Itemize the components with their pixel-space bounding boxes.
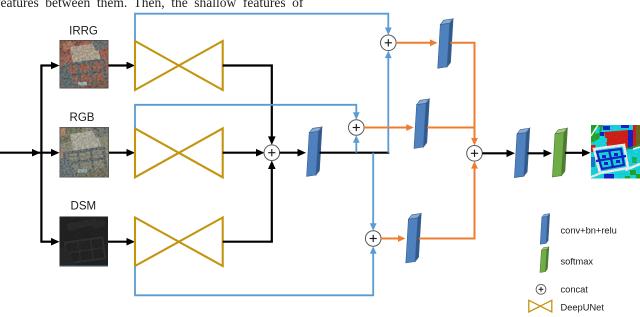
arrowhead into DeepUNet2 [127,149,136,157]
svg-text:softmax: softmax [561,257,594,267]
arrowhead into concat A top [268,136,276,145]
skip wire DSM (blue) to concat D [135,249,373,295]
input image DSM [60,217,109,267]
input image RGB [60,127,110,178]
wire: concat C to conv slab3 (orange) [364,127,410,129]
arrowhead into concat D bottom [370,246,377,254]
svg-text:RGB: RGB [70,112,95,124]
wire: slab2 output to right rail (orange) [451,43,475,143]
arrowhead into RGB image [51,149,60,157]
wire: bus branch up to concat B (blue) [387,54,389,153]
arrowhead into softmax slab [544,150,553,158]
concat node B [381,35,397,51]
wire: branch to IRRG [40,64,54,66]
wire: softmax to output image [565,152,587,154]
wire: slab3 output to right rail (orange) [427,127,475,129]
arrowhead into slab5 [507,150,516,158]
DeepUNet U1 (IRRG branch) [135,41,223,90]
svg-text:conv+bn+relu: conv+bn+relu [561,225,617,235]
legend conv+bn+relu slab [540,214,550,245]
wire: slab4 output up to concat E (orange) [419,164,475,239]
wire: vertical distribution [40,66,42,242]
concat node D [365,231,381,247]
arrowhead into slab4 [398,235,406,242]
arrowhead into slab3 [406,124,414,131]
input image IRRG [60,40,109,89]
arrowhead into DeepUNet3 [127,238,136,246]
DeepUNet U3 (DSM branch) [135,218,223,267]
arrowhead into concat B top [385,28,392,36]
conv+bn+relu slab1 [307,127,322,176]
concat node E [467,146,483,162]
arrowhead into IRRG image [51,62,60,70]
wire: concat A to conv slab1 [280,152,302,154]
wire: bus branch down to concat D (blue) [372,153,374,228]
arrowhead into concat A left [256,149,265,157]
svg-text:DeepUNet: DeepUNet [561,302,605,312]
concat node C [349,120,365,136]
svg-text:DSM: DSM [71,201,97,213]
arrowhead into concat A bottom [268,161,276,170]
wire: bus branch up to concat C (blue) [355,138,357,152]
wire: branch to DSM [40,241,54,243]
wire: DeepUNet3 output up to concat A [223,164,272,242]
wire: concat D to conv slab4 (orange) [381,238,402,240]
arrowhead into slab2 [430,39,438,46]
conv+bn+relu slab5 [514,128,529,178]
wire: DeepUNet2 output to concat A [223,152,261,154]
arrowhead into DSM image [51,238,60,246]
arrowhead into concat D top [370,223,377,231]
wire: IRRG image to DeepUNet1 [109,64,131,66]
skip wire IRRG (blue) to concat B [135,14,388,41]
conv+bn+relu slab3 [414,99,429,148]
arrowhead into concat B bottom [385,51,392,59]
wire: slab5 to softmax slab [528,152,549,154]
concat node A [264,145,280,161]
skip wire RGB (blue) to concat C [135,105,356,129]
softmax slab [552,128,567,177]
wire: DeepUNet1 output down to concat A [223,66,272,142]
svg-text:features between them. Then, t: features between them. Then, the shallow… [0,0,304,10]
arrowhead into output image [582,149,591,157]
output segmentation image [591,125,640,179]
svg-text:IRRG: IRRG [69,26,98,38]
legend DeepUNet symbol [529,300,552,312]
arrowhead into DeepUNet1 [127,62,136,70]
wire: main input trunk [0,152,57,154]
svg-text:concat: concat [561,285,589,295]
legend concat symbol [536,284,546,294]
arrowhead into trunk junction [32,149,41,157]
conv+bn+relu slab2 [438,19,453,69]
legend softmax slab [540,247,549,273]
arrowhead into concat C top [353,112,360,120]
arrowhead into concat C bottom [353,135,360,143]
arrowhead into concat E bottom [471,161,478,169]
wire: slab1 output bus [320,152,390,154]
wire: RGB image to DeepUNet2 [109,152,130,154]
wire: concat B to conv slab2 (orange) [396,42,433,44]
wire: concat E to conv slab5 [482,152,511,154]
DeepUNet U2 (RGB branch) [135,128,223,177]
conv+bn+relu slab4 [406,213,421,263]
arrowhead into concat E top [471,138,478,146]
wire: DSM image to DeepUNet3 [108,241,130,243]
arrowhead into conv slab1 [298,149,307,157]
